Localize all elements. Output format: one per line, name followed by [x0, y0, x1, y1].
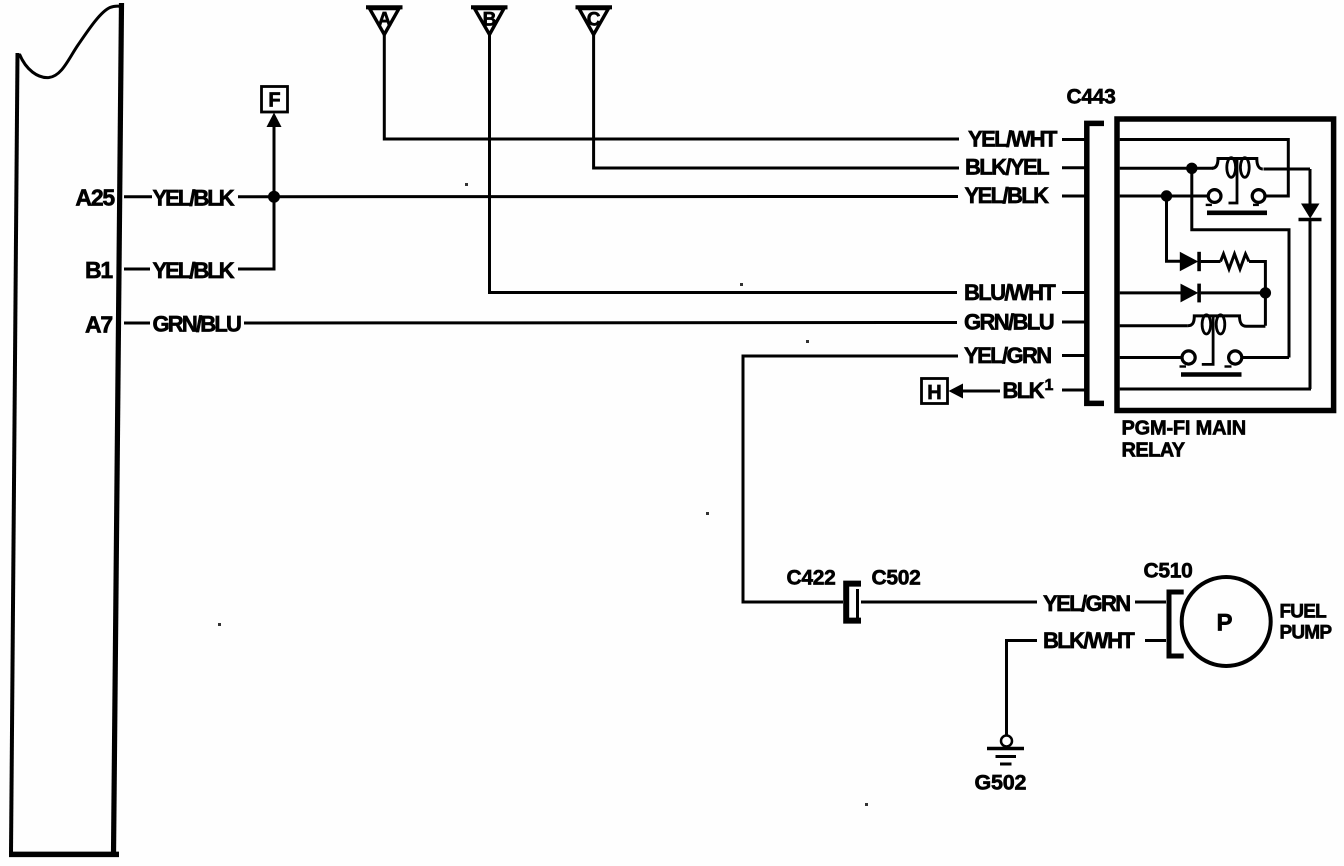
svg-text:YEL/BLK: YEL/BLK — [153, 186, 235, 211]
svg-text:A25: A25 — [75, 185, 115, 211]
svg-text:C: C — [587, 10, 601, 31]
ECM connector strip left edge — [11, 53, 18, 853]
wire from A — [384, 35, 959, 139]
svg-text:A: A — [378, 10, 392, 31]
relay inner wire BLK — [1120, 388, 1311, 391]
stub YEL/GRN to C443 — [1062, 354, 1085, 357]
stub YEL/WHT to C443 — [1062, 138, 1085, 141]
svg-text:BLK: BLK — [1003, 378, 1045, 403]
svg-text:YEL/GRN: YEL/GRN — [964, 343, 1051, 368]
wire BLK/WHT row — [1007, 641, 1038, 736]
pin B1 stub — [124, 268, 150, 271]
scan specks — [465, 183, 468, 186]
svg-text:B1: B1 — [85, 257, 113, 283]
svg-text:G502: G502 — [975, 771, 1027, 795]
svg-text:GRN/BLU: GRN/BLU — [964, 310, 1054, 335]
node dot coil1 left — [1186, 163, 1197, 174]
svg-text:F: F — [268, 90, 280, 112]
node junction A25/F — [268, 191, 280, 203]
svg-text:C510: C510 — [1144, 560, 1193, 583]
svg-text:YEL/WHT: YEL/WHT — [968, 127, 1058, 152]
zener diode wire bottom — [1309, 220, 1312, 390]
svg-text:RELAY: RELAY — [1122, 440, 1186, 462]
node dot D2/resistor junction — [1260, 287, 1271, 298]
stub GRN/BLU to C443 — [1062, 321, 1085, 324]
wire YEL/GRN row to pump branch — [743, 356, 958, 602]
relay S-link wire — [1192, 168, 1289, 357]
svg-text:A7: A7 — [85, 312, 112, 338]
svg-text:P: P — [1216, 610, 1232, 637]
pin A7 stub — [124, 322, 150, 325]
svg-text:BLK/WHT: BLK/WHT — [1043, 628, 1135, 653]
wire D2 to junction — [1201, 291, 1266, 294]
ECM connector torn-edge squiggle — [19, 6, 122, 78]
connector triangle B — [471, 7, 508, 34]
wire from C — [594, 35, 959, 168]
wire from B — [490, 35, 958, 293]
diode D1 — [1180, 252, 1199, 271]
wire D1 to resistor — [1201, 260, 1221, 263]
relay switch 1 bar — [1207, 211, 1267, 216]
relay inner wire BLK/YEL to coil 1 — [1120, 167, 1213, 170]
connector triangle A — [366, 7, 403, 34]
connector H box — [922, 379, 948, 404]
fuel pump motor — [1182, 577, 1271, 666]
ECM connector strip right edge — [114, 3, 122, 855]
wire A7 row — [244, 321, 957, 325]
wire A25 row — [238, 195, 958, 198]
node dot YEL/BLK — [1161, 190, 1172, 201]
relay contact 2 left — [1182, 351, 1195, 364]
relay wire contact2 right — [1241, 356, 1289, 359]
connector F box — [262, 87, 288, 113]
wire BLK/WHT to C510 — [1145, 639, 1166, 642]
wire C502 to YEL/GRN — [861, 601, 1037, 604]
zener diode — [1301, 204, 1320, 219]
svg-text:H: H — [927, 382, 941, 404]
PGM-FI main relay box — [1117, 119, 1334, 411]
svg-text:C443: C443 — [1067, 86, 1116, 109]
diode D1 branch wire — [1167, 196, 1181, 261]
svg-text:1: 1 — [1045, 377, 1054, 394]
stub BLK to C443 — [1062, 389, 1085, 392]
svg-text:BLK/YEL: BLK/YEL — [965, 155, 1049, 180]
stub YEL/BLK to C443 — [1062, 195, 1085, 198]
svg-text:YEL/BLK: YEL/BLK — [153, 258, 235, 283]
connector triangle C — [576, 7, 613, 34]
svg-text:FUEL: FUEL — [1280, 602, 1328, 623]
svg-text:YEL/GRN: YEL/GRN — [1043, 591, 1130, 616]
svg-text:C422: C422 — [787, 567, 836, 590]
ECM connector strip bottom bar — [9, 852, 119, 858]
svg-text:GRN/BLU: GRN/BLU — [153, 312, 242, 337]
connector C422/C502 symbol — [846, 584, 861, 621]
relay switch 2 bar — [1181, 372, 1242, 377]
relay coil 1 armature — [1229, 159, 1238, 204]
relay inner wire YEL/GRN to contact 2 — [1120, 356, 1183, 359]
resistor R1 — [1221, 254, 1250, 269]
svg-text:B: B — [483, 10, 497, 31]
svg-text:YEL/BLK: YEL/BLK — [965, 183, 1050, 208]
stub BLU/WHT to C443 — [1062, 291, 1085, 294]
wire H to BLK — [963, 390, 1000, 393]
svg-text:BLU/WHT: BLU/WHT — [964, 280, 1056, 305]
diode D2 row wire — [1120, 291, 1181, 294]
wire B1 row to F branch — [238, 127, 274, 269]
connector C510 bracket — [1169, 592, 1184, 656]
wire YEL/GRN to C510 — [1135, 601, 1166, 604]
ground G502 symbol — [987, 736, 1024, 765]
relay coil 2 body — [1188, 316, 1266, 326]
H arrowhead — [949, 384, 964, 399]
relay contact 2 right — [1229, 351, 1242, 364]
relay contact 1 right — [1252, 190, 1265, 203]
svg-text:PGM-FI MAIN: PGM-FI MAIN — [1122, 418, 1246, 440]
relay contact 1 left — [1208, 190, 1221, 203]
pin A25 stub — [124, 195, 152, 198]
relay inner wire GRN/BLU to coil 2 — [1120, 324, 1188, 327]
connector F arrowhead — [267, 113, 282, 128]
relay coil 2 armature — [1202, 316, 1213, 365]
wire resistor to junction — [1249, 262, 1265, 326]
zener diode wire top — [1309, 169, 1312, 204]
relay wire coil1 right to zener — [1264, 168, 1311, 171]
diode D2 — [1181, 284, 1199, 303]
relay inner wire YEL/BLK to contact — [1120, 195, 1209, 198]
stub BLK/YEL to C443 — [1062, 166, 1085, 169]
svg-text:PUMP: PUMP — [1280, 623, 1333, 644]
connector C443 bracket — [1087, 123, 1104, 403]
relay coil 1 body — [1212, 159, 1263, 170]
svg-text:C502: C502 — [872, 567, 921, 590]
relay inner wire YEL/WHT to contact — [1120, 140, 1289, 197]
